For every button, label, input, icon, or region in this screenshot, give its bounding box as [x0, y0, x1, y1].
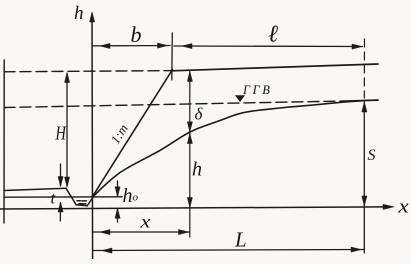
- left border vertical: [3, 60, 5, 223]
- dimension h0 upper line with down arrow: [117, 181, 119, 196]
- arrowhead l right: [352, 44, 362, 49]
- GGV line solid right end: [345, 100, 378, 101]
- slope line 1:m: [93, 70, 173, 197]
- arrowhead h down at axis: [187, 198, 192, 208]
- svg-text:x: x: [397, 195, 409, 217]
- dimension line b: [92, 45, 170, 47]
- arrowhead H down: [65, 177, 70, 187]
- arrowhead S down: [362, 196, 367, 206]
- ditch right slope: [87, 196, 94, 206]
- svg-text:S: S: [368, 147, 376, 164]
- arrowhead h0 down: [115, 187, 120, 197]
- svg-text:ℓ: ℓ: [268, 22, 278, 48]
- svg-text:h: h: [74, 3, 84, 24]
- arrowhead b left: [100, 43, 110, 48]
- dimension h0 lower line with up arrow: [117, 209, 119, 222]
- svg-text:b: b: [131, 22, 142, 47]
- axis h (vertical): [91, 14, 94, 259]
- arrowhead x left: [100, 230, 110, 235]
- water marks in ditch: [77, 201, 87, 204]
- canal bank top line: [4, 188, 66, 190]
- arrowhead delta down at curve: [187, 122, 192, 132]
- arrowhead l left: [182, 44, 192, 49]
- depression curve: [93, 100, 379, 197]
- arrowhead L left: [102, 248, 112, 253]
- arrowhead S up: [362, 102, 367, 112]
- dimension line x: [93, 231, 190, 233]
- axis x arrowhead: [383, 204, 394, 209]
- upper dashed groundwater line: [4, 71, 172, 72]
- svg-text:H: H: [55, 121, 67, 144]
- dimension line l: [174, 45, 363, 48]
- GGV dashed water-table line: [4, 101, 345, 108]
- axis x (horizontal): [0, 207, 390, 209]
- axis h arrowhead: [90, 12, 95, 22]
- GGV water-level marker: [236, 96, 245, 102]
- dimension t lower line with up arrow: [59, 203, 61, 221]
- arrowhead b right: [158, 43, 168, 48]
- arrowhead h up at curve: [187, 134, 192, 144]
- arrowhead t up: [58, 202, 63, 212]
- dimension delta-h extension vertical: [189, 72, 191, 238]
- svg-text:h: h: [192, 159, 202, 181]
- canal water level line: [4, 196, 122, 198]
- ground surface line (right, solid): [172, 64, 378, 71]
- arrowhead H up: [65, 73, 70, 83]
- ditch bottom: [76, 205, 87, 206]
- dimension line L: [93, 250, 364, 251]
- tick separating b and l dimensions: [171, 33, 174, 80]
- dimension S vertical: [363, 102, 365, 253]
- svg-text:ГГВ: ГГВ: [242, 83, 272, 97]
- ditch left slope: [66, 188, 76, 205]
- svg-text:L: L: [234, 228, 247, 252]
- svg-text:x: x: [139, 212, 150, 231]
- S extension dashed vertical: [363, 39, 365, 98]
- arrowhead delta up: [187, 72, 192, 82]
- dimension t upper line with down arrow: [60, 164, 62, 186]
- svg-text:δ: δ: [195, 105, 204, 124]
- arrowhead L right: [351, 247, 361, 252]
- arrowhead t down: [58, 177, 63, 187]
- arrowhead h0 up: [115, 208, 120, 218]
- arrowhead x right: [179, 230, 189, 235]
- dimension H vertical: [66, 74, 68, 187]
